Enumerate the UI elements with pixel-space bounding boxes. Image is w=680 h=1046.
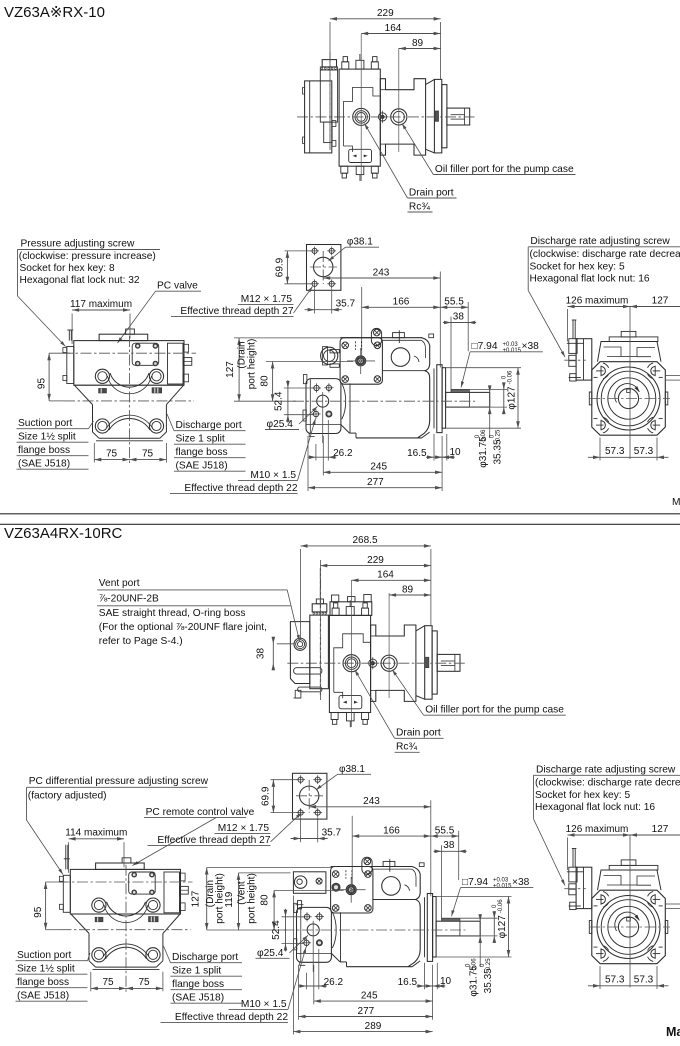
svg-text:-0.25: -0.25 (486, 958, 492, 972)
svg-text:80: 80 (260, 894, 271, 906)
svg-text:Oil filler port for the pump c: Oil filler port for the pump case (425, 705, 564, 716)
svg-text:M10 × 1.5: M10 × 1.5 (241, 999, 287, 1010)
svg-text:Mod: Mod (672, 497, 680, 508)
svg-text:245: 245 (370, 462, 387, 473)
svg-text:Socket for hex key: 5: Socket for hex key: 5 (530, 261, 625, 272)
svg-text:Suction port: Suction port (17, 950, 72, 961)
svg-text:Size 1 split: Size 1 split (176, 434, 225, 445)
svg-text:-0.06: -0.06 (498, 899, 504, 913)
svg-text:243: 243 (373, 267, 390, 278)
svg-text:SAE straight thread, O-ring bo: SAE straight thread, O-ring boss (99, 608, 246, 619)
svg-text:M12 × 1.75: M12 × 1.75 (218, 823, 270, 834)
svg-text:Drain port: Drain port (396, 728, 441, 739)
svg-text:55.5: 55.5 (435, 825, 455, 836)
svg-text:Oil filler port for the pump c: Oil filler port for the pump case (435, 164, 574, 175)
svg-text:port height): port height) (247, 339, 258, 390)
svg-text:Drain port: Drain port (409, 187, 454, 198)
svg-text:55.5: 55.5 (444, 297, 464, 308)
svg-text:□7.94: □7.94 (462, 877, 488, 888)
svg-text:Socket for hex key: 8: Socket for hex key: 8 (20, 263, 115, 274)
svg-text:26.2: 26.2 (324, 977, 344, 988)
svg-text:Pressure adjusting screw: Pressure adjusting screw (21, 239, 135, 250)
svg-text:52.4: 52.4 (271, 920, 282, 940)
svg-text:(SAE J518): (SAE J518) (17, 991, 69, 1002)
svg-text:Hexagonal flat lock nut: 32: Hexagonal flat lock nut: 32 (20, 275, 140, 286)
svg-text:port height): port height) (246, 873, 257, 924)
svg-text:(SAE J518): (SAE J518) (176, 461, 228, 472)
svg-text:26.2: 26.2 (333, 448, 353, 459)
svg-text:-0.06: -0.06 (472, 958, 478, 972)
svg-text:52.4: 52.4 (273, 391, 284, 411)
svg-text:PC differential pressure adjus: PC differential pressure adjusting screw (29, 776, 209, 787)
svg-text:Suction port: Suction port (18, 418, 73, 429)
svg-text:16.5: 16.5 (407, 448, 427, 459)
svg-text:(SAE J518): (SAE J518) (172, 993, 224, 1004)
svg-text:Discharge port: Discharge port (172, 952, 238, 963)
svg-text:164: 164 (385, 23, 402, 34)
svg-text:Effective thread depth 22: Effective thread depth 22 (175, 1012, 288, 1023)
svg-text:277: 277 (358, 1006, 375, 1017)
svg-text:16.5: 16.5 (398, 977, 418, 988)
svg-text:127: 127 (191, 890, 202, 907)
svg-text:(clockwise: discharge rate dec: (clockwise: discharge rate decrease) (530, 249, 680, 260)
svg-text:flange boss: flange boss (17, 977, 69, 988)
svg-text:126 maximum: 126 maximum (566, 824, 629, 835)
svg-text:75: 75 (102, 977, 114, 988)
svg-text:243: 243 (363, 796, 380, 807)
svg-text:35.7: 35.7 (336, 299, 356, 310)
svg-text:89: 89 (412, 38, 424, 49)
svg-text:φ25.4: φ25.4 (267, 419, 294, 430)
svg-text:75: 75 (106, 448, 118, 459)
svg-text:Discharge rate adjusting screw: Discharge rate adjusting screw (530, 236, 670, 247)
svg-text:(clockwise: discharge rate dec: (clockwise: discharge rate decrease) (535, 778, 680, 789)
svg-text:Effective thread depth 27: Effective thread depth 27 (157, 835, 270, 846)
svg-text:57.3: 57.3 (634, 446, 654, 457)
svg-text:Hexagonal flat lock nut: 16: Hexagonal flat lock nut: 16 (530, 274, 650, 285)
svg-text:φ127: φ127 (497, 915, 508, 939)
svg-text:268.5: 268.5 (352, 535, 377, 546)
svg-text:Discharge rate adjusting screw: Discharge rate adjusting screw (536, 764, 676, 775)
svg-text:69.9: 69.9 (275, 257, 286, 277)
svg-text:Size 1½ split: Size 1½ split (18, 432, 76, 443)
svg-text:245: 245 (361, 990, 378, 1001)
svg-text:38: 38 (453, 311, 465, 322)
svg-text:75: 75 (142, 448, 154, 459)
svg-text:VZ63A※RX-10: VZ63A※RX-10 (4, 4, 105, 21)
svg-text:flange boss: flange boss (172, 979, 224, 990)
svg-text:PC valve: PC valve (157, 281, 198, 292)
svg-text:flange boss: flange boss (18, 445, 70, 456)
svg-text:(clockwise: pressure increase): (clockwise: pressure increase) (19, 251, 156, 262)
svg-text:117 maximum: 117 maximum (70, 299, 132, 310)
svg-text:-0.06: -0.06 (481, 429, 487, 443)
svg-text:M12 × 1.75: M12 × 1.75 (241, 294, 293, 305)
svg-text:×38: ×38 (512, 877, 530, 888)
svg-text:(SAE J518): (SAE J518) (18, 459, 70, 470)
svg-text:flange boss: flange boss (176, 447, 228, 458)
svg-text:refer to Page S-4.): refer to Page S-4.) (99, 636, 183, 647)
svg-text:-0.25: -0.25 (496, 429, 502, 443)
svg-text:φ38.1: φ38.1 (347, 237, 373, 248)
svg-text:75: 75 (138, 977, 150, 988)
svg-text:277: 277 (367, 477, 384, 488)
svg-text:Mas: Mas (666, 1025, 680, 1039)
svg-text:Socket for hex key: 5: Socket for hex key: 5 (535, 790, 630, 801)
svg-text:57.3: 57.3 (605, 974, 625, 985)
svg-text:φ25.4: φ25.4 (257, 948, 284, 959)
svg-text:166: 166 (393, 297, 410, 308)
svg-text:Size 1 split: Size 1 split (172, 966, 221, 977)
svg-text:69.9: 69.9 (261, 786, 272, 806)
svg-text:10: 10 (450, 447, 462, 458)
svg-text:164: 164 (377, 570, 394, 581)
svg-text:126 maximum: 126 maximum (566, 295, 629, 306)
svg-text:35.7: 35.7 (322, 828, 342, 839)
svg-text:⅞-20UNF-2B: ⅞-20UNF-2B (99, 594, 159, 605)
svg-text:10: 10 (440, 976, 452, 987)
svg-text:×38: ×38 (522, 341, 540, 352)
svg-text:57.3: 57.3 (634, 974, 654, 985)
svg-text:Size 1½ split: Size 1½ split (17, 964, 75, 975)
svg-text:229: 229 (377, 8, 394, 19)
svg-text:127: 127 (652, 295, 669, 306)
svg-text:□7.94: □7.94 (472, 341, 498, 352)
svg-text:127: 127 (652, 824, 669, 835)
svg-text:166: 166 (383, 825, 400, 836)
svg-text:57.3: 57.3 (605, 446, 625, 457)
svg-text:+0.015: +0.015 (503, 348, 522, 354)
svg-text:Rc¾: Rc¾ (409, 201, 430, 212)
svg-text:289: 289 (365, 1021, 382, 1032)
svg-text:Discharge port: Discharge port (176, 420, 242, 431)
svg-text:Vent port: Vent port (99, 578, 140, 589)
svg-text:(For the optional ⅞-20UNF flar: (For the optional ⅞-20UNF flare joint, (99, 622, 267, 633)
svg-text:Effective thread depth 22: Effective thread depth 22 (184, 483, 297, 494)
svg-text:89: 89 (402, 584, 414, 595)
svg-text:119: 119 (224, 891, 235, 907)
svg-text:Effective thread depth 27: Effective thread depth 27 (180, 306, 293, 317)
svg-text:80: 80 (260, 375, 271, 387)
svg-text:127: 127 (225, 361, 236, 378)
svg-text:M10 × 1.5: M10 × 1.5 (250, 470, 296, 481)
svg-text:VZ63A4RX-10RC: VZ63A4RX-10RC (4, 525, 123, 542)
svg-text:114 maximum: 114 maximum (65, 828, 127, 839)
svg-text:Hexagonal flat lock nut: 16: Hexagonal flat lock nut: 16 (535, 802, 655, 813)
svg-text:(factory adjusted): (factory adjusted) (28, 791, 107, 802)
svg-text:-0.06: -0.06 (508, 370, 514, 384)
svg-text:38: 38 (443, 840, 455, 851)
svg-text:φ127: φ127 (507, 386, 518, 410)
svg-text:Rc¾: Rc¾ (396, 742, 417, 753)
svg-text:+0.015: +0.015 (493, 884, 512, 890)
svg-text:φ38.1: φ38.1 (339, 764, 365, 775)
svg-text:95: 95 (37, 378, 48, 390)
svg-text:229: 229 (367, 555, 384, 566)
svg-text:95: 95 (33, 906, 44, 918)
svg-text:38: 38 (256, 648, 267, 660)
svg-text:PC remote control valve: PC remote control valve (146, 807, 255, 818)
